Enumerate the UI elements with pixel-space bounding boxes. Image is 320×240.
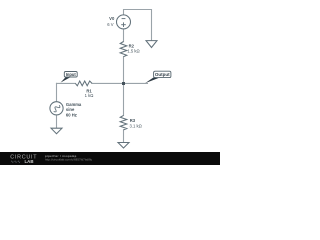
svg-text:Gamma: Gamma (66, 102, 82, 107)
svg-text:Output: Output (155, 72, 170, 77)
svg-text:http://circuitlab.com/c/6857fd: http://circuitlab.com/c/6857fd7bd8ly (45, 158, 93, 162)
svg-text:R3: R3 (130, 118, 136, 123)
svg-text:6 V: 6 V (107, 22, 113, 27)
svg-text:∿∿∿: ∿∿∿ (11, 159, 21, 164)
svg-text:1 kΩ: 1 kΩ (85, 93, 94, 98)
svg-text:LAB: LAB (25, 159, 34, 164)
svg-text:1.5 kΩ: 1.5 kΩ (127, 49, 139, 54)
svg-text:Input: Input (66, 72, 77, 77)
svg-text:3.1 kΩ: 3.1 kΩ (130, 123, 142, 128)
svg-text:V0: V0 (109, 16, 115, 21)
svg-text:R2: R2 (129, 43, 135, 48)
svg-text:60 Hz: 60 Hz (66, 112, 77, 117)
